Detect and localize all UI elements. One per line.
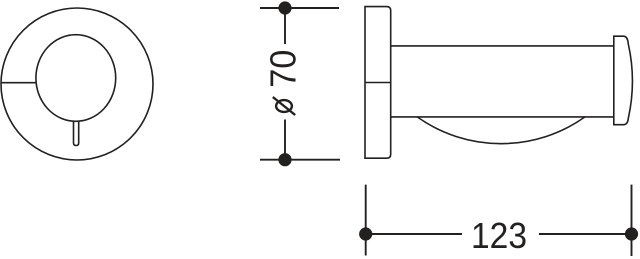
inner circle (front view, hook cap face) <box>36 35 116 122</box>
underside arc (side view) <box>417 117 585 144</box>
radius line (front view, left horizontal) <box>2 82 36 84</box>
svg-text:123: 123 <box>471 216 527 257</box>
dimension dot left (123) <box>359 227 372 240</box>
dimension dot top (ø70) <box>278 1 291 14</box>
hook arm bottom line (side view) <box>391 116 614 118</box>
notch (front view, slot at bottom of hook face) <box>74 121 79 146</box>
dimension line upper segment (ø70) <box>284 8 286 44</box>
dimension dot bottom (ø70) <box>278 153 291 166</box>
dimension tick left (123) <box>365 185 367 256</box>
outer circle (front view, rosette ø70) <box>1 8 153 160</box>
dimension line left segment (123) <box>366 233 462 235</box>
dimension dot right (123) <box>625 227 638 240</box>
wall plate midline <box>365 82 391 84</box>
svg-text:70: 70 <box>262 50 303 88</box>
dimension line lower segment (ø70) <box>284 120 286 160</box>
dimension label ø symbol (rotated) <box>273 97 295 115</box>
hook arm top line (side view) <box>391 45 614 47</box>
dimension line right segment (123) <box>539 233 632 235</box>
dimension tick right (123) <box>631 185 633 256</box>
wall plate (side view) <box>365 7 391 159</box>
dimension tick top (ø70) <box>260 7 339 9</box>
dimension tick bottom (ø70) <box>260 159 340 161</box>
end cap (side view) <box>614 36 633 125</box>
